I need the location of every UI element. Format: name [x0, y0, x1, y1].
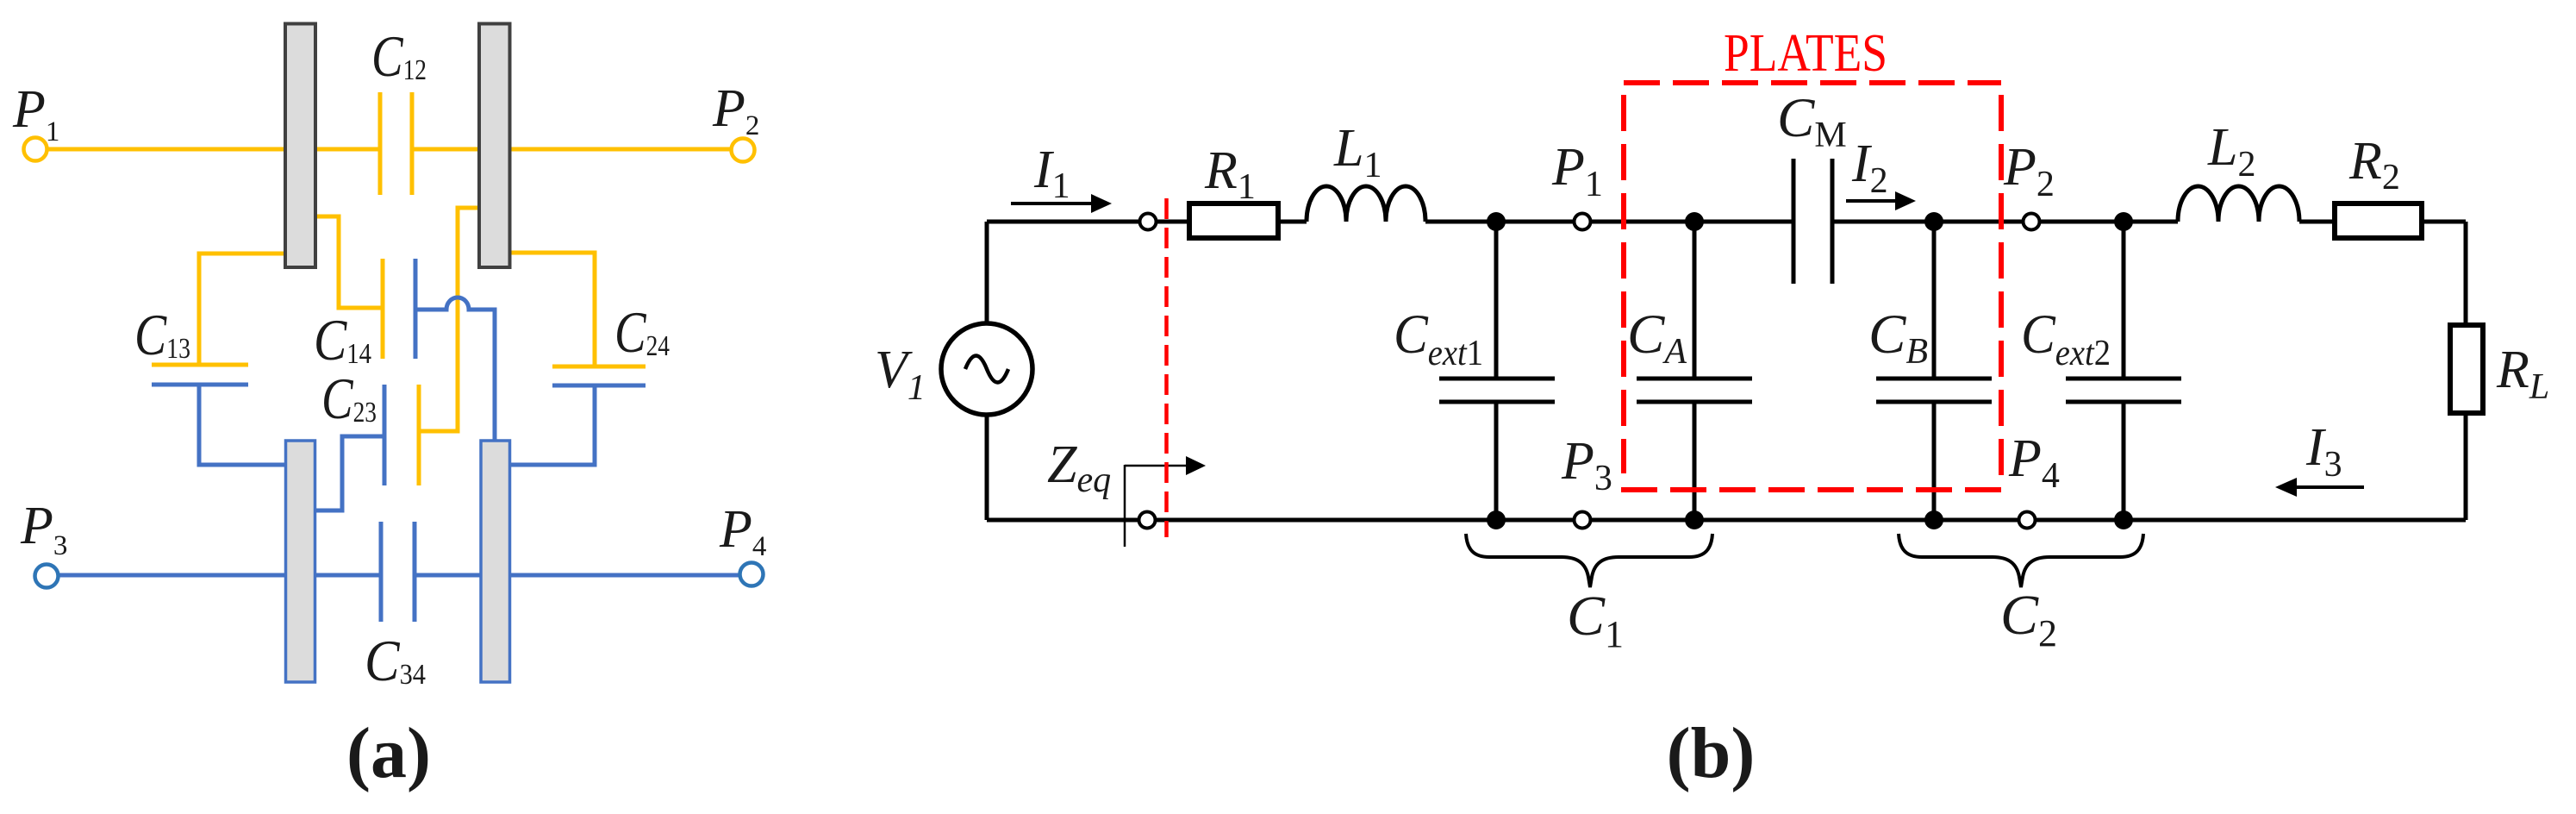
svg-text:PLATES: PLATES: [1724, 24, 1887, 83]
svg-text:(a): (a): [346, 713, 431, 793]
svg-text:(b): (b): [1667, 713, 1756, 793]
